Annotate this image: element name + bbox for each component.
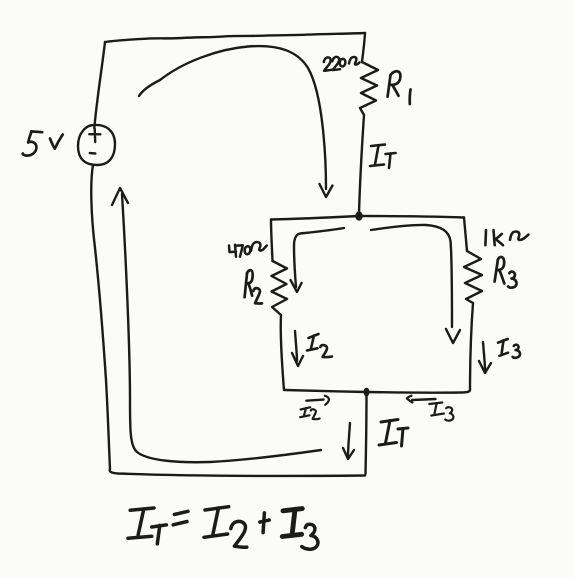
label I3 right: [498, 339, 520, 358]
equation IT = I2 + I3: [128, 507, 318, 550]
label 470ohm: [229, 242, 267, 257]
wire inner left corner: [271, 220, 273, 262]
wire left outer lower: [91, 165, 110, 469]
wire R1 bottom: [359, 115, 364, 213]
label IT bottom: [379, 420, 408, 447]
inner left arrow head: [291, 280, 302, 292]
node B junction dot: [364, 388, 370, 397]
wire top outer: [105, 33, 365, 42]
small arrow I3 head: [407, 396, 413, 403]
inner left curved arrow: [294, 228, 344, 287]
node A junction dot: [355, 211, 363, 220]
wire inner right corner: [464, 218, 467, 252]
label R2: [245, 270, 262, 303]
wire node B down: [366, 392, 367, 474]
minus terminal: [90, 152, 96, 155]
wire inner top left: [271, 216, 359, 220]
wire inner top right: [359, 216, 464, 218]
inner right curved arrow: [371, 225, 452, 327]
arrow I3 right head: [479, 361, 491, 373]
arrow IT bottom head: [343, 448, 354, 459]
small arrow I2: [306, 400, 323, 401]
small label I3: [429, 403, 453, 421]
label IT upper: [370, 145, 396, 169]
resistor R2: [272, 261, 288, 315]
return path arrow head: [112, 188, 128, 205]
wire R1 top: [362, 33, 365, 62]
wire left outer upper: [94, 42, 105, 128]
label 220ohm: [324, 57, 360, 71]
resistor R3: [464, 251, 482, 303]
label 5V: [23, 131, 63, 155]
wire below R3: [470, 303, 473, 390]
arrow I2 inner head: [292, 353, 303, 366]
wire bottom outer: [110, 469, 365, 476]
small arrow I2 head: [325, 396, 329, 405]
voltage source V1: [78, 125, 115, 165]
label 1kohm: [485, 230, 528, 245]
label R1: [388, 71, 411, 104]
small arrow I3: [412, 399, 436, 400]
big curved arrow top head: [320, 184, 333, 197]
wire inner bottom: [285, 390, 470, 393]
resistor R1: [360, 62, 378, 115]
return path curved arrow: [122, 194, 321, 462]
label I2 inner: [307, 334, 332, 357]
inner right arrow head: [446, 329, 460, 343]
arrow I2 inner: [295, 331, 297, 361]
wire below R2: [281, 315, 284, 390]
plus terminal: [89, 129, 100, 142]
arrow IT bottom: [348, 423, 350, 456]
big curved arrow top: [139, 46, 326, 189]
label R3: [495, 257, 517, 288]
arrow I3 right: [483, 342, 485, 370]
small label I2: [300, 407, 319, 419]
